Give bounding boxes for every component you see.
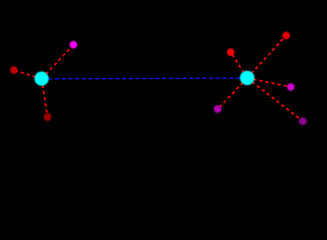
node R2 (bright red)	[227, 48, 235, 56]
edge hub-right to node R2	[231, 52, 248, 78]
edge hub-right to node R4	[247, 78, 303, 121]
edge hub-left to node L3	[42, 79, 48, 117]
node R4 (purple)	[299, 117, 307, 125]
edge hub-right to node R5	[218, 78, 248, 109]
node R1 (red)	[282, 32, 290, 40]
node R5 (violet)	[214, 105, 222, 113]
node L2 (red)	[10, 66, 18, 74]
edge hub-right to node R1	[247, 36, 286, 79]
node L1 (magenta)	[70, 41, 78, 49]
edge hub-left to hub-right (blue dashed)	[42, 77, 248, 80]
node hub-left (cyan)	[35, 72, 49, 86]
edge hub-right to node R3	[247, 78, 291, 87]
node R3 (magenta)	[287, 83, 295, 91]
edge hub-left to node L2	[14, 70, 42, 79]
node hub-right (cyan)	[240, 71, 254, 85]
node L3 (dark red)	[44, 113, 52, 121]
edge hub-left to node L1	[42, 45, 74, 79]
